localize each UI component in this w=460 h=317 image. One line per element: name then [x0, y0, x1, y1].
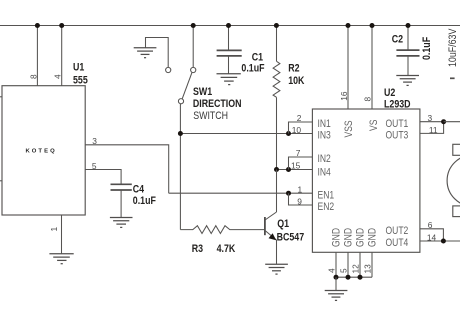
- svg-text:IN1: IN1: [318, 118, 331, 130]
- junction OUT1/OUT3: [441, 119, 446, 124]
- capacitor C1 plates: [217, 49, 242, 51]
- wire: OUT3 stub pin 11: [420, 122, 444, 134]
- wire: rail to R2: [276, 26, 278, 62]
- junction on rail at C2: [406, 23, 411, 28]
- svg-text:OUT2: OUT2: [386, 225, 409, 237]
- resistor R3 zigzag: [180, 226, 265, 234]
- capacitor C4 plates: [111, 183, 132, 185]
- svg-text:U2: U2: [384, 87, 396, 99]
- svg-text:KOTEQ: KOTEQ: [26, 149, 57, 155]
- svg-text:EN1: EN1: [318, 189, 335, 201]
- junction OUT2/OUT4: [441, 239, 446, 244]
- wire: GND bus to ground: [335, 277, 337, 290]
- wire: U2 GND pin 13: [371, 252, 373, 277]
- svg-text:OUT3: OUT3: [386, 130, 409, 142]
- svg-text:3: 3: [428, 113, 433, 123]
- junction on rail at C1: [226, 23, 231, 28]
- svg-text:10uF/63V: 10uF/63V: [447, 28, 459, 67]
- svg-text:9: 9: [297, 196, 302, 206]
- svg-text:GND: GND: [367, 228, 379, 247]
- wire: C2 to ground: [407, 56, 409, 75]
- junction R2/Q1 collector and IN4 line: [274, 167, 279, 172]
- svg-text:8: 8: [362, 97, 372, 102]
- switch SW1 contact circle left: [166, 67, 171, 72]
- svg-text:OUT1: OUT1: [386, 118, 409, 130]
- wire: C4 to ground: [120, 191, 122, 218]
- wire: EN1/EN2 net from U1 pin3: [169, 192, 313, 194]
- junction GND bus c: [358, 275, 363, 280]
- svg-text:VSS: VSS: [343, 120, 355, 137]
- junction IN1/IN3 tie: [286, 131, 291, 136]
- ground (U2 GND pins): [325, 291, 348, 301]
- wire: U1 pin 5 to C4: [85, 170, 121, 185]
- ground (Q1 emitter): [265, 264, 288, 274]
- svg-text:SW1: SW1: [193, 86, 213, 98]
- U1 clipped left pin stub (bottom): [0, 180, 2, 182]
- svg-text:GND: GND: [343, 228, 355, 247]
- wire: U1 pin 3 output: [85, 145, 169, 193]
- IC U1 555 body: [2, 86, 85, 215]
- junction GND bus b: [346, 275, 351, 280]
- wire: SW1 pole down to R3: [179, 104, 181, 230]
- svg-text:U1: U1: [73, 62, 85, 74]
- junction GND bus a: [334, 275, 339, 280]
- wire: Q1 emitter to ground: [276, 240, 278, 264]
- wire: rail to C1: [228, 26, 230, 51]
- svg-text:7: 7: [296, 148, 301, 158]
- wire: SW1 grounded contact hook: [146, 38, 169, 68]
- junction on rail at U1 pin 4: [59, 23, 64, 28]
- svg-text:555: 555: [73, 75, 88, 87]
- transistor Q1 base bar: [264, 217, 266, 235]
- IC U2 L293D body: [312, 109, 420, 252]
- svg-text:BC547: BC547: [277, 232, 305, 244]
- wire: motor feed top: [444, 121, 460, 123]
- svg-text:6: 6: [428, 220, 433, 230]
- svg-text:2: 2: [297, 113, 302, 123]
- wire: rail to C2: [407, 26, 409, 50]
- svg-text:0.1uF: 0.1uF: [133, 195, 156, 207]
- wire: GND bus: [336, 276, 372, 278]
- svg-text:1: 1: [298, 184, 303, 194]
- svg-text:L293D: L293D: [384, 99, 411, 111]
- svg-text:1: 1: [49, 227, 59, 232]
- svg-text:4: 4: [53, 74, 63, 79]
- svg-text:C2: C2: [392, 34, 404, 46]
- wire: rail to U2 pin 16 VSS: [347, 26, 349, 110]
- svg-text:13: 13: [362, 264, 372, 274]
- ground (U1 pin 1): [49, 254, 73, 264]
- ground (C2): [396, 76, 419, 86]
- resistor R2 zigzag: [273, 61, 280, 97]
- wire: rail to U2 pin 8 VS: [371, 26, 373, 110]
- switch SW1 lever: [182, 73, 192, 99]
- wire: OUT1 stub pin 3: [420, 121, 444, 123]
- svg-text:IN3: IN3: [318, 130, 331, 142]
- svg-text:GND: GND: [331, 228, 343, 247]
- ground (SW1 contact): [134, 48, 157, 58]
- junction SW1 wire and IN3 line: [178, 131, 183, 136]
- junction on rail at pin 8: [370, 23, 375, 28]
- wire: C1 to ground: [228, 56, 230, 73]
- junction EN1/EN2 tie: [286, 191, 291, 196]
- junction on rail at SW1: [191, 23, 196, 28]
- svg-text:C4: C4: [133, 184, 145, 196]
- wire: R2 bottom to IN2/IN4 net: [276, 97, 278, 169]
- svg-text:R3: R3: [192, 243, 204, 255]
- svg-text:4: 4: [326, 268, 336, 273]
- motor terminal top: [453, 144, 460, 155]
- svg-text:IN4: IN4: [318, 166, 332, 178]
- wire: rail to SW1 fixed contact: [192, 26, 194, 68]
- junction on rail at U1 pin 8: [35, 23, 40, 28]
- svg-text:0.1uF: 0.1uF: [421, 37, 433, 60]
- svg-text:10: 10: [292, 125, 302, 135]
- svg-text:IN2: IN2: [318, 153, 331, 165]
- motor terminal bottom: [453, 206, 460, 217]
- wire: U1 pin 8 to rail: [36, 26, 38, 86]
- junction on rail at R2: [274, 23, 279, 28]
- switch SW1 contact circle right: [191, 67, 196, 72]
- transistor Q1 collector diagonal: [265, 212, 277, 220]
- svg-text:10K: 10K: [288, 75, 305, 87]
- wire: U2 GND pin 5: [347, 252, 349, 277]
- wire: U2 GND pin 12: [359, 252, 361, 277]
- ground (C1): [217, 74, 241, 85]
- junction on rail at pin 16: [346, 23, 351, 28]
- svg-text:SWITCH: SWITCH: [193, 110, 228, 122]
- svg-text:4.7K: 4.7K: [217, 243, 236, 255]
- svg-text:DIRECTION: DIRECTION: [193, 98, 242, 110]
- svg-text:VS: VS: [368, 120, 380, 131]
- svg-text:5: 5: [338, 268, 348, 273]
- wire: U1 pin 4 to rail: [61, 26, 63, 86]
- svg-text:14: 14: [427, 232, 437, 242]
- wire: +V supply top rail: [0, 25, 460, 27]
- switch SW1 pole circle: [178, 99, 183, 104]
- svg-text:EN2: EN2: [318, 201, 335, 213]
- transistor Q1 emitter arrow: [269, 233, 277, 240]
- svg-text:Q1: Q1: [277, 218, 289, 230]
- wire: U1 pin 1 to ground: [61, 215, 63, 253]
- wire: OUT2 stub pin 6: [420, 229, 444, 241]
- wire: IN2 stub: [289, 157, 313, 170]
- svg-text:11: 11: [429, 125, 438, 135]
- svg-text:15: 15: [291, 161, 301, 171]
- svg-text:12: 12: [350, 264, 360, 274]
- junction IN2/IN4 tie: [286, 167, 291, 172]
- motor body circle: [447, 155, 460, 206]
- wire: OUT4 stub pin 14: [420, 240, 460, 242]
- U1 clipped left pin stub (top): [0, 96, 2, 98]
- svg-text:8: 8: [28, 74, 38, 79]
- svg-text:OUT4: OUT4: [386, 237, 409, 249]
- clipped capacitor mark: [450, 77, 455, 79]
- wire: IN1 stub: [289, 122, 313, 134]
- svg-text:16: 16: [339, 91, 349, 101]
- svg-text:R2: R2: [288, 63, 300, 75]
- wire: IN2/IN4 net horizontal: [277, 169, 313, 171]
- wire: IN1/IN3 net horizontal: [180, 133, 312, 135]
- svg-text:GND: GND: [355, 228, 367, 247]
- wire: EN2 stub: [289, 193, 313, 205]
- svg-text:0.1uF: 0.1uF: [241, 63, 264, 75]
- transistor Q1 emitter diagonal: [265, 231, 277, 241]
- wire: U2 GND pin 4: [335, 252, 337, 277]
- capacitor C2 plates: [396, 49, 419, 51]
- ground (C4): [110, 218, 133, 228]
- wire: Q1 collector up to IN2/IN4 net: [276, 170, 278, 213]
